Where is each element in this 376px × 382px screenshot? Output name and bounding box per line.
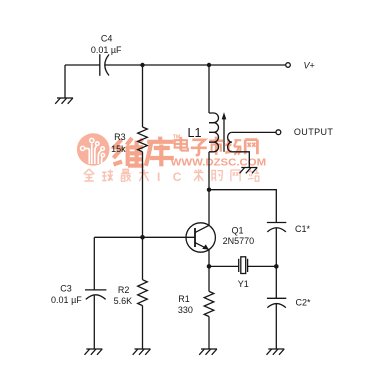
svg-text:C4: C4 bbox=[101, 33, 113, 43]
svg-text:V+: V+ bbox=[304, 60, 315, 70]
svg-text:R2: R2 bbox=[118, 285, 130, 295]
svg-text:C2*: C2* bbox=[296, 298, 312, 308]
svg-text:0.01 µF: 0.01 µF bbox=[91, 45, 122, 55]
svg-text:C3: C3 bbox=[60, 283, 72, 293]
svg-text:R1: R1 bbox=[178, 294, 190, 304]
svg-text:5.6K: 5.6K bbox=[114, 296, 133, 306]
svg-text:330: 330 bbox=[178, 305, 193, 315]
svg-text:L1: L1 bbox=[188, 126, 202, 140]
svg-text:C1*: C1* bbox=[295, 224, 311, 234]
svg-text:Q1: Q1 bbox=[231, 225, 243, 235]
svg-text:0.01 µF: 0.01 µF bbox=[51, 295, 82, 305]
svg-text:Y1: Y1 bbox=[238, 279, 249, 289]
svg-text:I: I bbox=[157, 170, 160, 184]
svg-text:2N5770: 2N5770 bbox=[223, 236, 255, 246]
svg-text:OUTPUT: OUTPUT bbox=[294, 127, 333, 137]
svg-text:R3: R3 bbox=[114, 132, 126, 142]
svg-text:15k: 15k bbox=[111, 144, 126, 154]
svg-text:C: C bbox=[173, 170, 182, 184]
